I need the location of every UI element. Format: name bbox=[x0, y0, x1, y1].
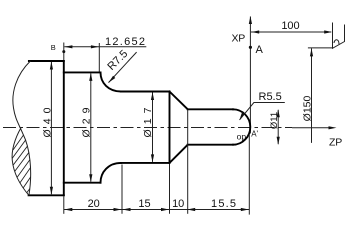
svg-text:B: B bbox=[51, 43, 56, 52]
arrows 20 bbox=[64, 208, 72, 211]
dimension Ø11 bbox=[277, 110, 279, 144]
leader R5.5 bbox=[240, 103, 285, 120]
extension at x=169.5 bbox=[169, 164, 171, 214]
dimension Ø29 bbox=[90, 73, 92, 181]
svg-text:15: 15 bbox=[138, 198, 150, 210]
svg-text:ZP: ZP bbox=[329, 137, 342, 149]
dimension line bbox=[64, 46, 146, 48]
svg-text:A: A bbox=[256, 44, 264, 56]
extension at x=187.7 bbox=[187, 110, 189, 214]
dimension Ø40 bbox=[50, 62, 52, 194]
broken-section lens boundary bbox=[12, 128, 29, 196]
Ø11 bottom edge bbox=[188, 144, 233, 146]
extension at x=122 bbox=[121, 165, 123, 214]
XP axis bbox=[249, 17, 251, 134]
svg-text:Ø17: Ø17 bbox=[142, 107, 154, 137]
break line left edge bbox=[13, 61, 31, 195]
taper bottom bbox=[170, 145, 188, 163]
arrow 15.5 right bbox=[241, 208, 249, 211]
dimension 12.652 bbox=[64, 43, 147, 72]
dimension Ø150 bbox=[308, 48, 333, 143]
dimension line 20/15/10/15.5 bbox=[64, 209, 250, 211]
Ø17 top edge bbox=[121, 91, 170, 93]
arrow shared 10/15.5 bbox=[187, 208, 195, 211]
point B dot bbox=[62, 50, 65, 53]
centerline (part axis / ZP axis) bbox=[3, 127, 330, 129]
fillet R7.5 top bbox=[101, 72, 122, 91]
svg-text:R5.5: R5.5 bbox=[259, 91, 282, 103]
Ø40 top edge bbox=[29, 60, 64, 62]
Ø29 top edge bbox=[64, 71, 101, 73]
dimension Ø17 bbox=[152, 93, 154, 162]
Ø29 bottom edge bbox=[64, 182, 101, 184]
svg-text:100: 100 bbox=[281, 20, 299, 32]
tool start symbol bbox=[333, 23, 345, 49]
arrows 15 bbox=[123, 208, 131, 211]
extension line from tool tip bbox=[308, 47, 333, 49]
svg-text:Ø11: Ø11 bbox=[269, 112, 280, 129]
rounded end R5.5 bbox=[233, 109, 250, 144]
svg-text:10: 10 bbox=[172, 198, 184, 210]
ZP axis arrowhead bbox=[329, 126, 337, 129]
svg-text:Ø150: Ø150 bbox=[301, 95, 313, 121]
svg-text:Ø40: Ø40 bbox=[42, 107, 54, 137]
extension line at fillet start bbox=[98, 43, 100, 72]
part outline bbox=[29, 61, 251, 195]
dimension line bbox=[311, 48, 313, 142]
Ø11 top edge bbox=[188, 108, 233, 110]
svg-text:Ø29: Ø29 bbox=[80, 107, 92, 137]
XP axis arrowhead bbox=[249, 16, 252, 24]
taper top bbox=[170, 92, 188, 110]
bottom dimension chain extension lines bbox=[64, 110, 250, 215]
extension line at B bbox=[63, 43, 65, 61]
svg-text:12.652: 12.652 bbox=[105, 36, 145, 48]
svg-text:20: 20 bbox=[88, 198, 100, 210]
step face Ø40/Ø29 bbox=[63, 61, 65, 195]
svg-text:A': A' bbox=[251, 129, 258, 138]
svg-text:XP: XP bbox=[232, 33, 246, 45]
dimension 100 bbox=[251, 31, 331, 33]
cone junction face bbox=[169, 92, 171, 163]
svg-text:15.5: 15.5 bbox=[211, 198, 236, 210]
Ø17 bottom edge bbox=[121, 162, 170, 164]
extension at x=64 bbox=[63, 197, 65, 214]
point A dot bbox=[249, 46, 252, 49]
Ø40 bottom edge bbox=[29, 194, 64, 196]
extension at x=249.3 bbox=[248, 134, 250, 214]
leader R7.5 bbox=[109, 52, 137, 83]
fillet R7.5 bottom bbox=[101, 163, 122, 183]
